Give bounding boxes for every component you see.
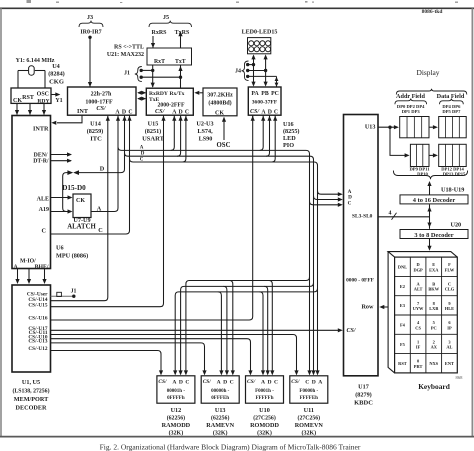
- rom U10 ROMODD box: [246, 376, 284, 437]
- svg-text:3600-37FF: 3600-37FF: [252, 100, 278, 106]
- wire A19 to latch: [51, 209, 73, 213]
- svg-text:DNL: DNL: [398, 265, 407, 270]
- svg-text:CS/-U13: CS/-U13: [28, 339, 47, 345]
- svg-text:ENT: ENT: [445, 361, 454, 366]
- label U6 MPU (8086): [56, 245, 88, 260]
- svg-text:(27C256): (27C256): [298, 415, 321, 422]
- svg-text:4 to 16 Decoder: 4 to 16 Decoder: [413, 197, 456, 204]
- wire RST to CPU: [28, 103, 32, 115]
- svg-text:D: D: [312, 380, 316, 386]
- wire CS/-U16: [51, 116, 253, 320]
- wire J1 top to RxT line: [141, 69, 154, 72]
- label U16 8255 LED PIO: [283, 121, 300, 149]
- svg-text:0FFFFh: 0FFFFh: [167, 396, 185, 401]
- svg-text:U20: U20: [451, 222, 462, 229]
- wire DT-R/ arrow: [51, 159, 73, 163]
- wire U10 ROMODD C stub: [269, 281, 275, 376]
- svg-text:CS/: CS/: [155, 108, 166, 115]
- svg-text:E2: E2: [400, 284, 405, 289]
- svg-text:BKW: BKW: [428, 287, 439, 292]
- svg-text:RAMODD: RAMODD: [162, 422, 191, 429]
- svg-text:MPU (8086): MPU (8086): [56, 253, 88, 260]
- svg-text:IR0-IR7: IR0-IR7: [80, 30, 101, 36]
- label Addr Field: [396, 93, 425, 100]
- svg-text:U11: U11: [304, 407, 314, 414]
- bus D wire to vertical: [79, 115, 125, 172]
- figure caption: [100, 442, 361, 451]
- wire U13 RAMEVN D stub: [223, 286, 229, 375]
- bus A wire from latch: [91, 115, 118, 211]
- mem bus row A: [173, 288, 317, 375]
- crystal Y1 symbol: [29, 66, 35, 75]
- svg-text:C: C: [348, 200, 352, 206]
- data field DP labels: [442, 104, 461, 114]
- page frame top rule: [0, 7, 474, 9]
- display group 1 (DP0-DP3): [400, 117, 429, 138]
- signal TxRS label: [175, 30, 190, 36]
- cpu U6 MPU box: [12, 116, 51, 271]
- svg-text:C: C: [274, 380, 278, 386]
- svg-text:FLW: FLW: [445, 267, 455, 272]
- wire AD-bus branch: [63, 173, 68, 212]
- mem bus row D: [179, 283, 314, 376]
- wire LED line 2 (PB): [264, 54, 268, 86]
- page number 868: [456, 375, 464, 380]
- svg-text:Display: Display: [417, 68, 440, 77]
- jumper J1 label: [124, 71, 130, 77]
- bus trunk D label: [141, 152, 145, 157]
- svg-text:FFFFEh: FFFFEh: [300, 396, 319, 401]
- label OSC: [217, 142, 231, 149]
- label C at bus: [98, 227, 102, 234]
- label U2-U3 LS74 LS90: [196, 121, 213, 143]
- pio U16 box: [248, 87, 281, 116]
- svg-text:(32K): (32K): [301, 430, 316, 437]
- svg-text:CS/-U15: CS/-U15: [28, 302, 47, 308]
- svg-text:PC: PC: [431, 325, 437, 330]
- svg-text:U4: U4: [52, 63, 60, 70]
- svg-text:F4: F4: [400, 322, 406, 327]
- wire decoder to displays: [427, 181, 431, 195]
- svg-text:U1, U5: U1, U5: [22, 379, 40, 386]
- wire RxT down to USART: [151, 65, 155, 88]
- mem bus row C: [184, 277, 310, 375]
- label Data Field: [437, 93, 465, 100]
- label Display: [417, 68, 440, 77]
- svg-text:C: C: [98, 227, 102, 234]
- wire RxRS down to U21: [151, 36, 155, 48]
- crystal Y1 label: [16, 58, 55, 64]
- wire J1 bottom to TxT line: [141, 76, 182, 79]
- connector J3 label: [87, 14, 93, 21]
- svg-text:C: C: [42, 228, 46, 235]
- clock generator U4 box: [11, 88, 51, 104]
- svg-text:DT-R/: DT-R/: [33, 159, 49, 165]
- label RS <-> TTL: [114, 45, 144, 51]
- page frame bottom rule: [0, 436, 474, 438]
- wire U13 to displays: [378, 125, 410, 157]
- wire U14 C arrow up: [127, 116, 131, 121]
- wire into U17 A: [318, 191, 343, 197]
- svg-text:INT: INT: [77, 108, 89, 115]
- connector J5 label: [163, 14, 169, 21]
- wire U10 ROMODD A stub: [260, 292, 266, 376]
- jumper J4 pin 2: [246, 69, 249, 72]
- cropped header text fragments: [27, 0, 459, 3]
- svg-text:PA: PA: [251, 91, 259, 97]
- wire between decoders bidir: [427, 205, 431, 229]
- svg-text:D: D: [268, 110, 272, 116]
- decoder U1 U5 box: [12, 285, 51, 372]
- svg-text:CS/: CS/: [347, 328, 357, 334]
- svg-text:C: C: [230, 380, 234, 386]
- svg-text:F0001h -: F0001h -: [255, 389, 274, 394]
- keyboard matrix 3d box: [388, 252, 457, 373]
- wire RDY to CPU: [42, 103, 46, 115]
- svg-text:OSC: OSC: [217, 142, 231, 149]
- svg-text:U13: U13: [215, 407, 226, 414]
- svg-text:D15-D0: D15-D0: [62, 184, 86, 192]
- wire U16 C tap: [272, 115, 278, 162]
- wire U13 RAMEVN A stub: [218, 292, 224, 376]
- svg-text:CK: CK: [76, 198, 85, 204]
- svg-text:ALE: ALE: [37, 197, 49, 203]
- wire group1 to group2: [429, 125, 438, 129]
- svg-text:RAMEVN: RAMEVN: [206, 422, 234, 429]
- svg-text:A: A: [172, 380, 176, 386]
- svg-text:F5: F5: [400, 342, 406, 347]
- svg-text:U14: U14: [90, 121, 101, 128]
- wire Y1 output: [51, 92, 63, 103]
- svg-text:U17: U17: [358, 384, 369, 391]
- svg-text:TxT: TxT: [175, 59, 186, 65]
- label U7-U9 ALATCH: [67, 217, 96, 231]
- display group 4 (DP12-DP15): [439, 144, 467, 166]
- wire CS/-U11: [51, 335, 299, 376]
- svg-text:RST: RST: [22, 95, 34, 101]
- svg-text:MEM/PORT: MEM/PORT: [14, 396, 49, 403]
- svg-text:8086-tkd: 8086-tkd: [422, 9, 443, 15]
- label A at bus: [97, 206, 102, 213]
- wire U14 A arrow up: [116, 116, 120, 121]
- svg-text:U18-U19: U18-U19: [441, 187, 464, 194]
- wire 307KHz to USART clk: [194, 91, 203, 95]
- usart U15 box: [146, 88, 193, 115]
- connector J3 brace: [79, 21, 103, 27]
- bus C wire from cpu: [51, 115, 130, 234]
- svg-text:U6: U6: [56, 245, 64, 252]
- svg-text:(32K): (32K): [257, 430, 272, 437]
- svg-text:D: D: [267, 380, 271, 386]
- svg-text:INTR: INTR: [33, 126, 49, 133]
- svg-text:CS/: CS/: [158, 379, 167, 385]
- jumper J4 label: [235, 69, 241, 75]
- arrow trunk1 into U12 area: [307, 370, 311, 375]
- wire U15 C tap: [182, 115, 188, 162]
- svg-text:HLE: HLE: [445, 306, 454, 311]
- svg-text:A: A: [97, 206, 102, 213]
- svg-text:DGP: DGP: [413, 267, 423, 272]
- jumper J1 brace: [135, 67, 142, 82]
- svg-text:(8284): (8284): [48, 71, 65, 78]
- jumper J4 pin 1: [246, 63, 249, 66]
- data field brace: [440, 99, 464, 105]
- svg-text:CS/: CS/: [96, 105, 107, 112]
- svg-text:NXS: NXS: [429, 361, 438, 366]
- svg-text:E3: E3: [400, 303, 406, 308]
- bus trunk 2: [125, 153, 314, 373]
- svg-text:J3: J3: [87, 14, 93, 21]
- label Keyboard: [418, 382, 451, 391]
- svg-text:SL3-SL0: SL3-SL0: [352, 214, 373, 220]
- svg-text:Y1: Y1: [55, 98, 62, 104]
- wire SL3-SL0 bus: [378, 211, 430, 220]
- wire U15 A tap: [171, 115, 177, 150]
- bus D15-D0 bidir stub: [67, 170, 79, 175]
- wire U14 D arrow up: [122, 116, 126, 121]
- svg-text:RST: RST: [398, 361, 407, 366]
- svg-text:BHE/: BHE/: [35, 264, 49, 270]
- svg-text:A: A: [261, 380, 265, 386]
- wire A to decoder 2: [27, 269, 31, 285]
- svg-text:CS/-U16: CS/-U16: [28, 316, 47, 322]
- svg-text:D: D: [122, 110, 126, 116]
- svg-text:EXA: EXA: [429, 267, 439, 272]
- svg-text:D: D: [179, 380, 183, 386]
- wire IR0-IR7 to U14: [88, 37, 92, 87]
- jumper J1 pin top: [140, 69, 143, 72]
- svg-text:U2-U3: U2-U3: [196, 121, 213, 128]
- svg-text:Row: Row: [361, 304, 374, 311]
- svg-text:KBDC: KBDC: [354, 400, 373, 407]
- svg-text:U16: U16: [283, 121, 294, 128]
- svg-text:F0000h -: F0000h -: [299, 389, 318, 394]
- svg-text:U10: U10: [259, 407, 270, 414]
- svg-text:4: 4: [389, 211, 392, 217]
- svg-text:D: D: [100, 166, 105, 173]
- svg-text:CS/: CS/: [250, 109, 260, 115]
- wire U16 A tap: [260, 115, 266, 150]
- svg-text:(LS138, 27256): (LS138, 27256): [12, 388, 49, 395]
- wire CS/-U15: [51, 116, 164, 307]
- svg-text:CS/-U12: CS/-U12: [28, 346, 47, 352]
- svg-text:J1: J1: [71, 289, 77, 295]
- label U14 8259 ITC: [87, 121, 104, 143]
- svg-text:CKG: CKG: [49, 79, 64, 86]
- svg-text:3 to 8 Decoder: 3 to 8 Decoder: [414, 232, 453, 239]
- label U1 U5 LS138 MEM/PORT DECODER: [12, 379, 49, 412]
- svg-text:(32K): (32K): [169, 430, 184, 437]
- wire DEN/ arrow: [51, 152, 73, 156]
- interrupt controller U14 box: [68, 87, 137, 116]
- addr field DP labels: [397, 104, 425, 114]
- wire CS/-U13: [51, 343, 207, 376]
- display main brace: [396, 89, 467, 95]
- svg-text:DP1 DP3: DP1 DP3: [402, 109, 421, 114]
- wire into U17 D: [314, 196, 343, 202]
- svg-text:A: A: [217, 380, 221, 386]
- svg-text:U13: U13: [365, 124, 376, 131]
- svg-text:CS: CS: [415, 325, 421, 330]
- label U21: MAX232: [107, 52, 144, 58]
- svg-text:U12: U12: [171, 407, 182, 414]
- signal RxRS label: [151, 30, 167, 36]
- svg-text:C: C: [274, 110, 278, 116]
- svg-text:00000h -: 00000h -: [211, 389, 230, 394]
- wire keyboard Row to U17: [379, 305, 388, 309]
- svg-text:FFFFFh: FFFFFh: [255, 396, 273, 401]
- bidir arrows U14-USART lower: [137, 97, 146, 101]
- svg-text:CK: CK: [13, 98, 22, 104]
- signal IR0-IR7 label: [80, 30, 101, 36]
- svg-text:DP5 DP7: DP5 DP7: [442, 109, 461, 114]
- arrow trunk3 into U12 area: [315, 370, 319, 375]
- latch U7-U9 box: [73, 194, 91, 218]
- wire U20 to keyboard: [427, 239, 431, 251]
- svg-text:U15: U15: [148, 121, 159, 128]
- bus trunk C label: [140, 157, 144, 162]
- wire group3 to group4: [429, 153, 438, 157]
- svg-text:J4: J4: [235, 69, 241, 75]
- wire CS/-U14: [51, 116, 108, 301]
- svg-text:UYW: UYW: [413, 306, 424, 311]
- label D15-D0: [62, 184, 86, 192]
- level shifter U21 MAX232 box: [147, 48, 192, 65]
- svg-text:LS74,: LS74,: [197, 128, 213, 135]
- LED block LED0-LED15: [248, 38, 271, 54]
- crystal Y1 wire: [18, 71, 45, 89]
- svg-text:307.2KHz: 307.2KHz: [207, 93, 233, 99]
- svg-text:IF: IF: [416, 345, 421, 350]
- connector J5 brace: [149, 21, 192, 27]
- svg-text:0FFFEh: 0FFFEh: [211, 396, 229, 401]
- svg-text:USART: USART: [142, 136, 164, 143]
- wire U10 ROMODD D stub: [264, 286, 270, 375]
- svg-text:C: C: [185, 110, 189, 116]
- svg-text:RS <->TTL: RS <->TTL: [114, 45, 144, 51]
- wire U16 D tap: [266, 115, 272, 156]
- svg-text:AX: AX: [431, 345, 438, 350]
- node on IR0-IR7 wire: [88, 36, 91, 39]
- ram U13 RAMEVN box: [201, 376, 239, 437]
- svg-text:LED: LED: [283, 135, 296, 142]
- svg-text:TxRS: TxRS: [175, 30, 190, 36]
- svg-text:(8255): (8255): [283, 128, 300, 135]
- label U4 8284 CKG: [48, 63, 65, 86]
- label U15 8251 USART: [142, 121, 164, 143]
- svg-text:ALATCH: ALATCH: [67, 224, 96, 231]
- wire J4 pin2 to PB line: [248, 69, 268, 72]
- wire CS/-U12: [51, 351, 164, 376]
- keyboard controller U17 box: [344, 115, 379, 376]
- wire U13 RAMEVN C stub: [229, 281, 235, 376]
- svg-text:RDY: RDY: [37, 98, 49, 104]
- decoder U18-U19 box: [400, 195, 468, 204]
- svg-text:LED0-LED15: LED0-LED15: [242, 30, 278, 36]
- svg-text:PIO: PIO: [283, 142, 294, 149]
- wire INT to CPU INTR: [51, 115, 82, 125]
- wire CS/-U10: [51, 339, 253, 376]
- svg-text:D: D: [179, 110, 183, 116]
- decoder output labels: [27, 292, 48, 352]
- svg-text:(8259): (8259): [87, 128, 104, 135]
- label U17 8279 KBDC: [354, 384, 373, 407]
- wire U14 CS/ arrow up: [106, 116, 110, 121]
- svg-text:C: C: [185, 380, 189, 386]
- arrow trunk2 into U12 area: [311, 370, 315, 375]
- lower DP labels right: [441, 167, 466, 177]
- svg-text:CS/: CS/: [203, 379, 212, 385]
- svg-text:DEN/: DEN/: [34, 153, 48, 159]
- wire U16 CS/ arrow up: [251, 115, 255, 121]
- svg-text:Keyboard: Keyboard: [418, 382, 451, 391]
- svg-text:C: C: [128, 110, 132, 116]
- page frame left rule: [0, 8, 2, 437]
- wire J4 pin1 to PA line: [248, 63, 256, 66]
- decoder U20 box: [400, 230, 468, 239]
- svg-text:U21: MAX232: U21: MAX232: [107, 52, 144, 58]
- svg-text:(8251): (8251): [145, 128, 162, 135]
- wire TxT from USART up: [178, 65, 182, 88]
- svg-text:ALT: ALT: [414, 287, 423, 292]
- rom U11 ROMEVN box: [290, 376, 328, 437]
- svg-text:A19: A19: [39, 207, 49, 213]
- svg-text:DECODER: DECODER: [16, 405, 47, 412]
- bus trunk 3: [130, 159, 318, 373]
- svg-text:LS90: LS90: [199, 136, 213, 143]
- svg-text:PRT: PRT: [414, 364, 423, 369]
- wire CS/-User + jumper J2: [51, 289, 77, 298]
- svg-text:IP: IP: [447, 325, 452, 330]
- jumper J4 brace: [242, 61, 249, 81]
- svg-text:J5: J5: [163, 14, 169, 21]
- wire ALE to latch: [51, 195, 73, 199]
- label U20: [451, 222, 462, 229]
- svg-text:00001h -: 00001h -: [167, 389, 186, 394]
- svg-text:(62256): (62256): [211, 415, 229, 422]
- svg-text:ITC: ITC: [90, 136, 102, 143]
- display bottom brace: [393, 171, 467, 180]
- svg-text:AL: AL: [446, 345, 452, 350]
- wire into U17 C: [310, 201, 343, 207]
- keyboard key labels: [398, 262, 455, 369]
- svg-text:22h-27h: 22h-27h: [91, 92, 112, 98]
- ram U12 RAMODD box: [157, 376, 195, 437]
- svg-text:(27C256): (27C256): [253, 415, 276, 422]
- page frame right rule: [471, 8, 473, 437]
- svg-text:Rx/Tx: Rx/Tx: [170, 91, 185, 97]
- addr field brace: [395, 99, 427, 105]
- svg-text:CLG: CLG: [445, 287, 455, 292]
- wire CS/-U17: [51, 328, 343, 332]
- wire J4 pin3 to PC line: [248, 76, 279, 86]
- wire BHE/ to decoder 3: [42, 269, 46, 285]
- svg-text:RxT: RxT: [154, 59, 165, 65]
- svg-text:(8279): (8279): [355, 392, 372, 399]
- wire U15 D tap: [177, 115, 183, 156]
- svg-text:RxRS: RxRS: [151, 30, 167, 36]
- svg-text:(62256): (62256): [167, 415, 185, 422]
- svg-text:Fig. 2. Organizational (Hardwa: Fig. 2. Organizational (Hardware Block D…: [100, 442, 361, 451]
- wire M-IO/ to decoder 1: [15, 269, 19, 285]
- svg-text:CS/: CS/: [291, 379, 300, 385]
- svg-text:Y1: 6.144 MHz: Y1: 6.144 MHz: [16, 58, 55, 64]
- baud clock box 307.2KHz: [203, 88, 237, 117]
- svg-text:CK: CK: [215, 111, 224, 117]
- bus trunk A label: [140, 146, 144, 151]
- label LED0-LED15: [242, 30, 278, 36]
- svg-text:(4800Bd): (4800Bd): [208, 100, 231, 107]
